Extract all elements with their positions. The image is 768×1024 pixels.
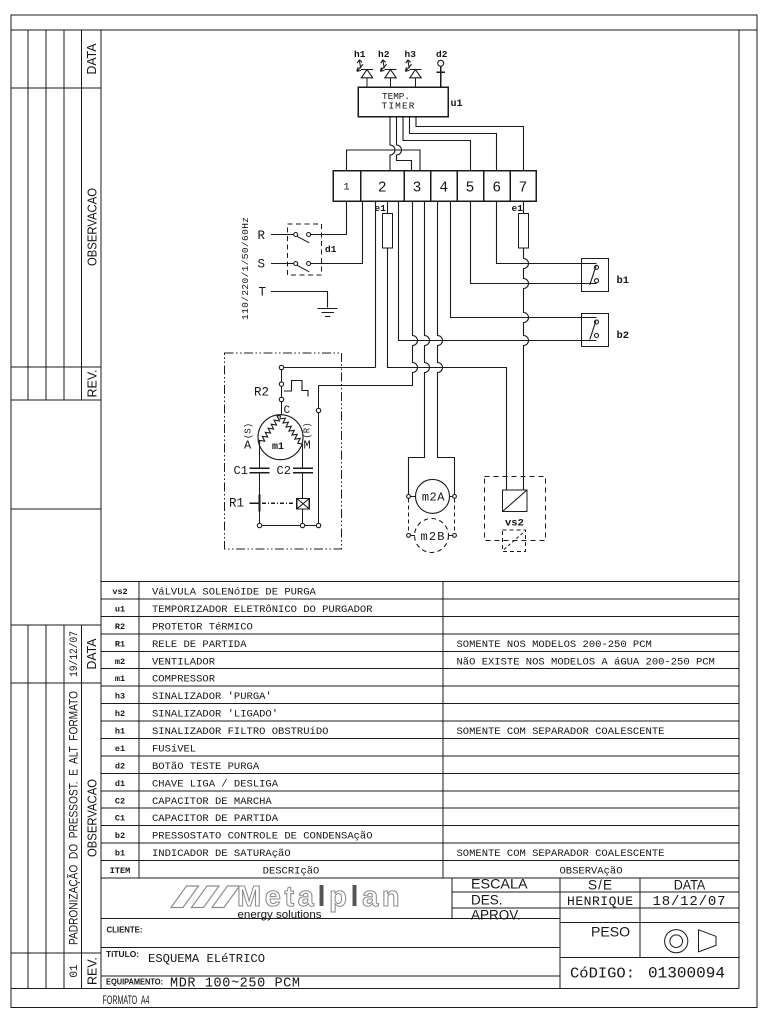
svg-text:C2: C2	[277, 464, 291, 478]
svg-text:R: R	[258, 229, 266, 243]
svg-text:19/12/07: 19/12/07	[69, 631, 81, 677]
svg-text:5: 5	[466, 181, 475, 197]
svg-text:18/12/07: 18/12/07	[653, 894, 726, 910]
svg-text:C1: C1	[234, 464, 248, 478]
wire: relay coil to bottom rail	[302, 509, 304, 526]
svg-text:h2: h2	[115, 709, 125, 719]
start capacitor C1	[234, 464, 270, 478]
svg-text:h1: h1	[354, 49, 366, 60]
svg-text:CAPACITOR DE PARTIDA: CAPACITOR DE PARTIDA	[152, 813, 279, 825]
wire: timer pin to terminal 2	[390, 117, 395, 171]
wire: common node to motor C terminal	[281, 368, 283, 416]
svg-text:A: A	[244, 439, 252, 453]
svg-text:TEMPORIZADOR ELETRôNICO DO PUR: TEMPORIZADOR ELETRôNICO DO PURGADOR	[152, 604, 373, 616]
node: rail right	[316, 523, 320, 527]
svg-text:PADRONIZAÇÃO DO PRESSOST. E: PADRONIZAÇÃO DO PRESSOST. E ALT FORMATO	[67, 691, 81, 945]
node: rail left	[257, 523, 261, 527]
svg-text:m2A: m2A	[422, 491, 445, 505]
bottom-left revision table	[11, 625, 101, 989]
svg-text:b2: b2	[115, 831, 125, 841]
thermal protector R2	[254, 381, 308, 402]
wire: terminal 4 to fan m2A right bracket	[438, 201, 455, 495]
wire: timer pin to terminal 7	[416, 117, 524, 171]
TITLE BLOCK	[101, 876, 739, 991]
svg-text:7: 7	[519, 181, 528, 197]
svg-text:S: S	[258, 258, 266, 272]
compressor unit boundary (dash-dot box)	[225, 353, 342, 549]
svg-text:2: 2	[378, 181, 387, 197]
wire: terminal 3 to compressor M terminal	[319, 201, 418, 386]
svg-text:110/220/1/50/60Hz: 110/220/1/50/60Hz	[240, 217, 251, 320]
wire: C2 to starting relay coil	[302, 473, 304, 499]
projection method symbol	[665, 930, 688, 953]
svg-text:SOMENTE NOS MODELOS 200-250 PC: SOMENTE NOS MODELOS 200-250 PCM	[457, 639, 652, 651]
wire: timer pin to terminal 6	[410, 117, 497, 171]
svg-text:DATA: DATA	[84, 638, 99, 669]
svg-text:energy solutions: energy solutions	[238, 909, 323, 921]
svg-text:3: 3	[413, 181, 422, 197]
node: common junction	[279, 365, 283, 369]
svg-text:OBSERVAçãO: OBSERVAçãO	[559, 866, 622, 878]
svg-text:CHAVE LIGA / DESLIGA: CHAVE LIGA / DESLIGA	[152, 778, 279, 790]
svg-text:INDICADOR DE SATURAçãO: INDICADOR DE SATURAçãO	[152, 848, 291, 860]
svg-text:COMPRESSOR: COMPRESSOR	[152, 674, 216, 686]
svg-text:TíTULO:: TíTULO:	[106, 949, 139, 959]
alternative fan motor m2B (dashed)	[407, 498, 457, 552]
svg-text:d1: d1	[115, 779, 125, 789]
wire: terminal 7 through fuse e1 to purge valve vs2 right pin	[524, 201, 529, 490]
wire: terminal 2 to disconnect switch S contact	[311, 201, 363, 264]
svg-text:CóDIGO:: CóDIGO:	[570, 966, 635, 983]
svg-text:TIMER: TIMER	[382, 101, 415, 112]
svg-text:REV.: REV.	[85, 370, 100, 398]
node: M riser terminal	[316, 408, 320, 412]
indicator lamp h1	[354, 49, 373, 87]
top-left revision table	[11, 30, 101, 400]
timer unit u1	[358, 87, 463, 117]
svg-text:e1: e1	[375, 203, 387, 214]
svg-text:d1: d1	[325, 244, 337, 255]
wire: timer pin to terminal 3	[397, 117, 412, 171]
svg-text:b2: b2	[617, 330, 630, 342]
svg-text:h1: h1	[115, 727, 125, 737]
wire: terminal 5 to saturation indicator b1 lower contact	[471, 201, 597, 284]
svg-text:FUSíVEL: FUSíVEL	[152, 743, 196, 755]
svg-text:T: T	[259, 286, 267, 300]
LEGEND TABLE	[101, 582, 739, 879]
svg-text:CLIENTE:: CLIENTE:	[107, 924, 143, 934]
node: rail mid	[300, 523, 304, 527]
wire: compressor bottom rail	[260, 525, 319, 527]
svg-text:h3: h3	[115, 692, 125, 702]
svg-text:R1: R1	[115, 639, 125, 649]
wire: terminal 4 to pressure switch b2 upper contact	[451, 201, 597, 318]
svg-text:01: 01	[69, 964, 81, 978]
bottom format strip line	[11, 988, 739, 990]
svg-text:SOMENTE COM SEPARADOR COALESCE: SOMENTE COM SEPARADOR COALESCENTE	[457, 848, 665, 860]
wire: terminal 2 through fuse e1 to purge valve vs2 left pin	[388, 201, 507, 490]
svg-text:C2: C2	[115, 796, 125, 806]
svg-text:h2: h2	[378, 49, 390, 60]
middle empty margin boxes	[11, 508, 101, 510]
dash-dot link R1 contact to R1 coil	[262, 502, 295, 504]
svg-text:FORMATO A4: FORMATO A4	[103, 995, 150, 1007]
svg-text:vs2: vs2	[112, 587, 127, 597]
svg-text:4: 4	[439, 181, 448, 197]
svg-text:h3: h3	[405, 49, 417, 60]
svg-text:DES.: DES.	[471, 893, 503, 908]
svg-text:VENTILADOR: VENTILADOR	[152, 656, 216, 668]
svg-text:DATA: DATA	[84, 43, 99, 74]
svg-text:ITEM: ITEM	[110, 866, 130, 876]
indicator lamp h2	[378, 49, 397, 87]
svg-text:e1: e1	[512, 203, 524, 214]
wire: T phase to earth	[271, 292, 328, 308]
saturation indicator switch b1	[582, 259, 630, 292]
terminal strip X1	[333, 171, 536, 202]
ground symbol	[318, 309, 338, 317]
svg-text:PRESSOSTATO CONTROLE DE CONDEN: PRESSOSTATO CONTROLE DE CONDENSAçãO	[152, 831, 373, 843]
svg-text:OBSERVACAO: OBSERVACAO	[85, 188, 100, 266]
disconnect switch d1	[288, 224, 337, 275]
wire: motor M external riser	[318, 386, 320, 526]
fuse e1 (left)	[383, 214, 393, 249]
fuse e1 (right)	[519, 214, 529, 249]
svg-text:SINALIZADOR FILTRO OBSTRUíDO: SINALIZADOR FILTRO OBSTRUíDO	[152, 726, 328, 738]
wire: jumper terminal 1 to terminal 3	[347, 150, 421, 171]
svg-text:DESCRIçãO: DESCRIçãO	[263, 866, 320, 878]
svg-text:01300094: 01300094	[648, 965, 725, 983]
winding run R	[280, 416, 301, 444]
svg-text:e1: e1	[115, 744, 125, 754]
Metalplan logo mark	[171, 886, 240, 908]
compressor motor m1	[258, 415, 303, 460]
wire: C1 to bottom rail through R1 contact	[259, 473, 261, 526]
svg-text:m2B: m2B	[421, 530, 445, 544]
svg-text:ESCALA: ESCALA	[471, 876, 528, 891]
inner frame right edge	[738, 30, 740, 989]
svg-text:REV.: REV.	[85, 957, 100, 985]
svg-text:SOMENTE COM SEPARADOR COALESCE: SOMENTE COM SEPARADOR COALESCENTE	[457, 726, 665, 738]
wire: terminal 2 to compressor common node	[375, 201, 377, 368]
winding start S	[259, 416, 280, 444]
svg-text:APROV.: APROV.	[471, 908, 521, 923]
starting relay R1 coil	[297, 499, 310, 509]
svg-text:b1: b1	[617, 275, 630, 287]
svg-text:d2: d2	[115, 761, 125, 771]
svg-text:(R): (R)	[303, 422, 313, 438]
svg-text:DATA: DATA	[674, 877, 706, 892]
wire: timer pin to terminal 5	[403, 117, 471, 171]
wire: R phase lead	[271, 234, 294, 236]
svg-text:NãO EXISTE NOS MODELOS A áGUA: NãO EXISTE NOS MODELOS A áGUA 200-250 PC…	[457, 656, 715, 668]
svg-text:vs2: vs2	[505, 518, 524, 530]
svg-text:R2: R2	[115, 622, 125, 632]
svg-text:u1: u1	[115, 604, 125, 614]
svg-text:d2: d2	[436, 49, 448, 60]
svg-text:m1: m1	[272, 442, 284, 453]
test button d2	[436, 49, 448, 87]
svg-text:m1: m1	[115, 674, 125, 684]
svg-text:6: 6	[492, 181, 501, 197]
svg-text:VáLVULA SOLENóIDE DE PURGA: VáLVULA SOLENóIDE DE PURGA	[152, 587, 317, 599]
wire: motor A to start capacitor C1	[259, 444, 261, 469]
svg-text:OBSERVACAO: OBSERVACAO	[85, 779, 100, 857]
svg-text:R1: R1	[229, 497, 244, 511]
svg-text:C1: C1	[115, 814, 125, 824]
wire: compressor common node horizontal	[282, 367, 376, 369]
wire: terminal 1 to disconnect switch R contact	[311, 201, 347, 235]
run capacitor C2	[277, 464, 313, 478]
svg-text:ESQUEMA ELéTRICO: ESQUEMA ELéTRICO	[148, 952, 265, 966]
fan motor m2A	[407, 479, 457, 513]
svg-text:SINALIZADOR 'PURGA': SINALIZADOR 'PURGA'	[152, 691, 272, 703]
svg-text:S/E: S/E	[588, 877, 612, 892]
wire: motor M to run capacitor C2	[302, 444, 304, 468]
svg-text:RELE DE PARTIDA: RELE DE PARTIDA	[152, 639, 247, 651]
svg-text:R2: R2	[254, 386, 269, 400]
starting relay R1 contact	[229, 495, 260, 512]
svg-text:PROTETOR TéRMICO: PROTETOR TéRMICO	[152, 621, 253, 633]
svg-text:MDR 100~250 PCM: MDR 100~250 PCM	[170, 976, 300, 991]
svg-text:1: 1	[343, 183, 349, 194]
svg-text:PESO: PESO	[591, 924, 630, 940]
wire: terminal 2 to pressure switch b2 lower contact	[399, 201, 597, 341]
svg-text:(S): (S)	[244, 423, 254, 439]
wire: S phase lead	[271, 263, 294, 265]
svg-text:b1: b1	[115, 849, 125, 859]
svg-text:u1: u1	[451, 99, 463, 110]
inner frame left edge	[100, 30, 102, 989]
svg-text:EQUIPAMENTO:: EQUIPAMENTO:	[106, 976, 163, 986]
svg-text:M: M	[304, 439, 311, 453]
condensation pressure switch b2	[582, 314, 630, 347]
svg-text:HENRIQUE: HENRIQUE	[567, 894, 633, 909]
svg-text:CAPACITOR DE MARCHA: CAPACITOR DE MARCHA	[152, 796, 272, 808]
wire: terminal 6 to saturation indicator b1 upper contact	[497, 201, 597, 264]
wire: terminal 3 to fan m2A left bracket	[409, 201, 430, 495]
svg-text:m2: m2	[115, 657, 125, 667]
indicator lamp h3	[405, 49, 422, 87]
svg-text:BOTãO TESTE PURGA: BOTãO TESTE PURGA	[152, 761, 260, 773]
svg-text:SINALIZADOR 'LIGADO': SINALIZADOR 'LIGADO'	[152, 709, 278, 721]
top margin strip line	[11, 29, 757, 31]
purge solenoid valve vs2	[485, 477, 546, 552]
